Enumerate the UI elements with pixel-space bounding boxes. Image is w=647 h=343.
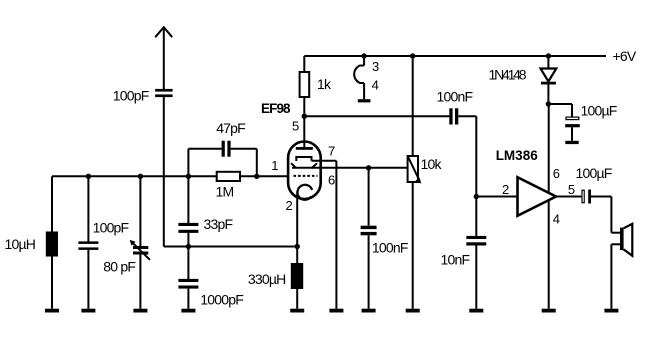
inductor 330uH [291, 247, 303, 309]
capacitor 100nF bypass [361, 168, 377, 309]
wire bus left drop [51, 176, 53, 231]
capacitor 47pF gridleak [188, 141, 256, 177]
svg-text:+6V: +6V [613, 48, 637, 64]
wire cathode to tank node [296, 191, 298, 246]
svg-text:1M: 1M [216, 183, 234, 199]
ground under loudspeaker [604, 309, 618, 313]
svg-text:47pF: 47pF [216, 120, 245, 136]
svg-text:4: 4 [553, 212, 560, 227]
svg-text:6: 6 [553, 166, 560, 181]
svg-text:10k: 10k [421, 156, 443, 172]
wire output pin5 [556, 196, 581, 198]
capacitor 10nF [466, 197, 486, 309]
node dot cathode/330uH [295, 244, 300, 249]
capacitor 100pF antenna coupling [155, 89, 173, 97]
wire pin7 to ground [312, 161, 337, 309]
capacitor 100uF output [581, 190, 611, 204]
tube U1 EF98 [288, 116, 321, 200]
variable capacitor 80pF [130, 176, 150, 308]
node dot diode/100uF [546, 101, 551, 106]
wire tank node horizontal [164, 246, 297, 248]
svg-text:100pF: 100pF [93, 220, 129, 236]
node dot pin2/10nF [474, 194, 479, 199]
ground under 100pF [81, 309, 95, 313]
loudspeaker [611, 197, 632, 309]
node dot bus/80pF [138, 174, 143, 179]
resistor R 1M gridleak [217, 172, 240, 181]
svg-text:4: 4 [372, 78, 379, 93]
svg-text:1000pF: 1000pF [200, 291, 243, 307]
svg-text:100nF: 100nF [437, 88, 473, 104]
ground under 10k [406, 309, 420, 313]
svg-text:EF98: EF98 [261, 101, 291, 116]
node dot tank/33pF/1000pF [186, 244, 191, 249]
resistor R 1k anode [300, 56, 310, 117]
wire suppressor pin6 to pot [321, 167, 408, 169]
capacitor 100nF coupling [449, 108, 476, 196]
svg-text:10nF: 10nF [441, 252, 470, 268]
node dot bus/33pF/47pF loop [186, 174, 191, 179]
svg-text:100µF: 100µF [581, 102, 617, 118]
capacitor 1000pF [178, 247, 198, 309]
ground under pin4 [542, 309, 556, 313]
svg-text:330µH: 330µH [248, 271, 286, 287]
node dot 47pF right [254, 174, 259, 179]
wire pin4 vertical LM386 [548, 198, 550, 309]
ground under 330uH [290, 309, 304, 313]
svg-text:5: 5 [568, 182, 575, 197]
capacitor 100uF supply [548, 104, 579, 144]
capacitor C 100pF tank [78, 176, 98, 308]
wire main grid bus [52, 175, 288, 177]
svg-text:7: 7 [328, 144, 335, 159]
ground under 100nF [362, 309, 376, 313]
antenna [155, 27, 172, 89]
svg-text:33pF: 33pF [204, 216, 233, 232]
svg-text:1: 1 [271, 158, 278, 173]
diode D1 1N4148 [541, 53, 557, 104]
wire 10uH to ground [51, 257, 53, 309]
ground under 80pF [133, 309, 147, 313]
svg-text:100µF: 100µF [576, 165, 612, 181]
svg-text:100pF: 100pF [113, 88, 149, 104]
svg-text:2: 2 [286, 198, 293, 213]
wire antenna down to tank node [163, 97, 165, 246]
svg-text:LM386: LM386 [496, 148, 539, 163]
ground under pin7 wire [329, 309, 343, 313]
svg-text:5: 5 [292, 119, 299, 134]
inductor L1 10uH [46, 232, 58, 257]
svg-text:2: 2 [502, 182, 509, 197]
ground under 10uH [45, 309, 59, 313]
svg-text:3: 3 [372, 59, 379, 74]
capacitor 33pF [178, 176, 198, 246]
ground under 1000pF [181, 309, 195, 313]
wire pin2 input [476, 196, 517, 198]
node dot anode/screen line [302, 114, 307, 119]
svg-text:10µH: 10µH [5, 236, 36, 252]
op-amp U2 LM386 [518, 177, 557, 216]
svg-text:1k: 1k [317, 76, 332, 92]
svg-text:6: 6 [328, 173, 335, 188]
potentiometer 10k [408, 53, 422, 308]
svg-text:1N4148: 1N4148 [489, 66, 527, 82]
ground under 10nF [469, 309, 483, 313]
svg-text:100nF: 100nF [372, 240, 408, 256]
wire top rail +6V [304, 55, 606, 57]
wire screen line [304, 115, 449, 117]
heater of EF98 pins 3-4 [354, 53, 370, 102]
svg-text:80 pF: 80 pF [103, 259, 135, 275]
node dot bus/100pF [86, 174, 91, 179]
node dot pin6/100nF [366, 165, 371, 170]
wire pin6 vertical LM386 [548, 104, 550, 196]
